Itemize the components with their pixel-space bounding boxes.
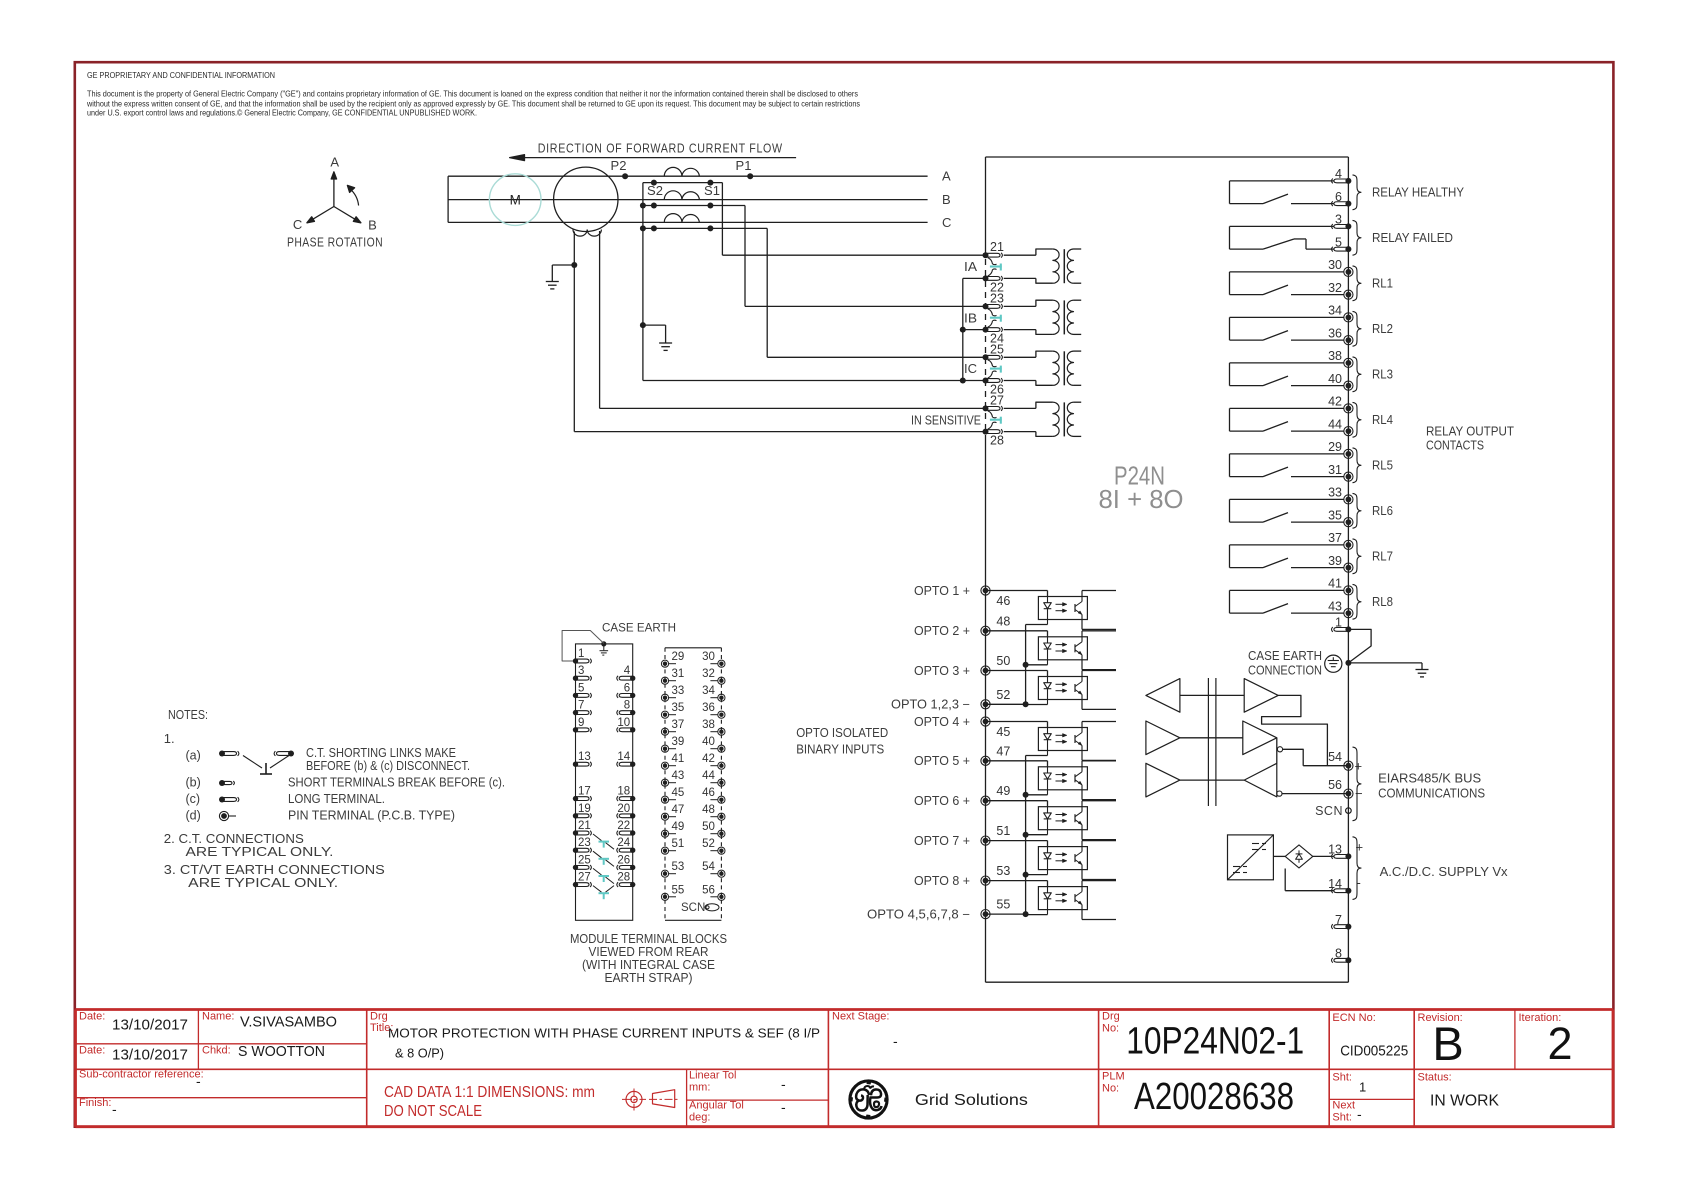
svg-text:49: 49 (672, 821, 685, 833)
svg-text:32: 32 (702, 668, 715, 680)
svg-text:53: 53 (672, 861, 685, 873)
svg-text:CONNECTION: CONNECTION (1248, 664, 1322, 678)
svg-text:-: - (893, 1033, 898, 1049)
svg-text:OPTO 5 +: OPTO 5 + (914, 754, 970, 768)
svg-text:RL7: RL7 (1372, 550, 1393, 564)
svg-text:44: 44 (702, 770, 715, 782)
svg-text:LONG TERMINAL.: LONG TERMINAL. (288, 792, 385, 806)
svg-text:This document is the property: This document is the property of General… (87, 89, 858, 99)
svg-text:41: 41 (672, 753, 685, 765)
svg-text:-: - (781, 1076, 786, 1092)
svg-text:39: 39 (672, 736, 685, 748)
svg-text:3. CT/VT EARTH CONNECTIONS: 3. CT/VT EARTH CONNECTIONS (164, 863, 385, 877)
svg-text:4: 4 (624, 665, 631, 677)
svg-text:26: 26 (617, 854, 630, 866)
svg-text:Date:: Date: (79, 1011, 105, 1023)
svg-text:Drg: Drg (370, 1011, 388, 1023)
svg-text:56: 56 (702, 884, 715, 896)
svg-text:BINARY INPUTS: BINARY INPUTS (796, 743, 884, 757)
svg-text:42: 42 (1328, 395, 1342, 409)
svg-text:24: 24 (617, 837, 630, 849)
svg-text:PIN TERMINAL (P.C.B. TYPE): PIN TERMINAL (P.C.B. TYPE) (288, 809, 455, 823)
svg-text:Chkd:: Chkd: (202, 1045, 231, 1057)
svg-text:44: 44 (1328, 417, 1342, 431)
svg-text:-: - (1357, 1106, 1362, 1122)
svg-text:GE PROPRIETARY AND CONFIDENTIA: GE PROPRIETARY AND CONFIDENTIAL INFORMAT… (87, 70, 275, 80)
svg-text:30: 30 (702, 651, 715, 663)
svg-text:RL2: RL2 (1372, 322, 1393, 336)
svg-text:OPTO 4,5,6,7,8 −: OPTO 4,5,6,7,8 − (867, 907, 970, 921)
svg-text:5: 5 (1335, 235, 1342, 249)
svg-text:6: 6 (624, 682, 630, 694)
svg-text:29: 29 (672, 651, 685, 663)
svg-text:IB: IB (964, 311, 977, 325)
svg-text:IN WORK: IN WORK (1430, 1093, 1499, 1110)
svg-text:41: 41 (1328, 577, 1342, 591)
svg-text:54: 54 (1328, 750, 1342, 764)
svg-text:45: 45 (996, 725, 1010, 739)
svg-text:-: - (196, 1073, 201, 1089)
svg-text:OPTO 8 +: OPTO 8 + (914, 874, 970, 888)
svg-text:46: 46 (702, 787, 715, 799)
svg-text:Next Stage:: Next Stage: (832, 1011, 889, 1023)
svg-text:38: 38 (702, 719, 715, 731)
svg-text:46: 46 (996, 594, 1010, 608)
svg-text:RL4: RL4 (1372, 413, 1393, 427)
svg-text:deg:: deg: (689, 1112, 710, 1124)
svg-text:29: 29 (1328, 440, 1342, 454)
svg-text:51: 51 (672, 838, 685, 850)
svg-text:43: 43 (672, 770, 685, 782)
svg-text:(a): (a) (186, 749, 201, 763)
svg-text:DIRECTION OF FORWARD CURREN: DIRECTION OF FORWARD CURRENT FLOW (538, 140, 783, 155)
svg-text:OPTO 2 +: OPTO 2 + (914, 624, 970, 638)
svg-text:5: 5 (578, 682, 584, 694)
svg-text:Sub-contractor reference:: Sub-contractor reference: (79, 1069, 204, 1081)
svg-text:8: 8 (1335, 947, 1342, 961)
svg-text:SCN: SCN (1315, 804, 1343, 818)
svg-text:17: 17 (578, 786, 591, 798)
svg-text:23: 23 (990, 291, 1004, 305)
svg-text:2: 2 (1547, 1018, 1572, 1069)
svg-text:OPTO 1 +: OPTO 1 + (914, 584, 970, 598)
svg-text:S WOOTTON: S WOOTTON (238, 1043, 325, 1060)
svg-text:2. C.T. CONNECTIONS: 2. C.T. CONNECTIONS (164, 832, 304, 846)
svg-text:SHORT TERMINALS BREAK BEFORE (: SHORT TERMINALS BREAK BEFORE (c). (288, 776, 505, 790)
svg-text:14: 14 (617, 751, 630, 763)
svg-text:1: 1 (1335, 616, 1342, 630)
svg-text:RELAY HEALTHY: RELAY HEALTHY (1372, 186, 1465, 200)
svg-text:37: 37 (672, 719, 685, 731)
svg-text:RL5: RL5 (1372, 459, 1393, 473)
svg-text:CASE EARTH: CASE EARTH (1248, 649, 1322, 663)
svg-text:& 8 O/P): & 8 O/P) (395, 1046, 444, 1061)
svg-text:27: 27 (990, 393, 1004, 407)
svg-text:28: 28 (617, 872, 630, 884)
svg-text:+: + (1355, 759, 1363, 774)
svg-text:56: 56 (1328, 778, 1342, 792)
svg-text:OPTO 4 +: OPTO 4 + (914, 715, 970, 729)
svg-text:7: 7 (578, 700, 584, 712)
svg-text:RL3: RL3 (1372, 368, 1393, 382)
svg-text:54: 54 (702, 861, 715, 873)
svg-text:IN SENSITIVE: IN SENSITIVE (911, 413, 981, 427)
svg-text:-: - (781, 1099, 786, 1115)
svg-text:−: − (1355, 786, 1363, 801)
svg-text:Sht:: Sht: (1332, 1112, 1352, 1124)
svg-text:23: 23 (578, 837, 591, 849)
svg-text:7: 7 (1335, 913, 1342, 927)
svg-text:PLM: PLM (1102, 1071, 1125, 1083)
svg-text:IA: IA (964, 260, 978, 274)
svg-text:22: 22 (617, 820, 630, 832)
svg-text:A: A (330, 155, 339, 170)
svg-text:40: 40 (1328, 372, 1342, 386)
svg-text:SCN: SCN (681, 902, 705, 914)
svg-text:1: 1 (578, 648, 584, 660)
svg-text:9: 9 (578, 717, 584, 729)
svg-text:31: 31 (672, 668, 685, 680)
svg-text:CID005225: CID005225 (1340, 1042, 1408, 1059)
svg-text:47: 47 (996, 744, 1010, 758)
svg-text:RL6: RL6 (1372, 504, 1393, 518)
svg-text:P2: P2 (611, 158, 627, 173)
svg-text:45: 45 (672, 787, 685, 799)
svg-text:18: 18 (617, 786, 630, 798)
svg-text:-: - (112, 1101, 117, 1117)
svg-text:(WITH INTEGRAL CASE: (WITH INTEGRAL CASE (582, 958, 715, 972)
svg-text:Grid Solutions: Grid Solutions (915, 1092, 1028, 1109)
svg-text:27: 27 (578, 872, 591, 884)
svg-text:49: 49 (996, 784, 1010, 798)
svg-text:Sht:: Sht: (1332, 1072, 1352, 1084)
svg-text:A.C./D.C. SUPPLY Vx: A.C./D.C. SUPPLY Vx (1380, 865, 1509, 879)
svg-text:Next: Next (1332, 1100, 1355, 1112)
svg-text:OPTO 1,2,3 −: OPTO 1,2,3 − (891, 698, 970, 712)
svg-text:M: M (510, 193, 521, 208)
svg-text:(d): (d) (186, 809, 201, 823)
svg-text:21: 21 (578, 820, 591, 832)
svg-text:37: 37 (1328, 531, 1342, 545)
svg-text:Finish:: Finish: (79, 1097, 111, 1109)
svg-text:RL8: RL8 (1372, 595, 1393, 609)
svg-text:33: 33 (1328, 486, 1342, 500)
svg-text:No:: No: (1102, 1083, 1119, 1095)
svg-text:36: 36 (1328, 326, 1342, 340)
svg-text:48: 48 (702, 804, 715, 816)
svg-text:35: 35 (1328, 508, 1342, 522)
svg-text:C.T. SHORTING LINKS MAKE: C.T. SHORTING LINKS MAKE (306, 746, 456, 760)
svg-text:B: B (368, 218, 377, 233)
svg-text:B: B (1432, 1017, 1463, 1070)
svg-text:IC: IC (964, 362, 977, 376)
svg-text:Status:: Status: (1418, 1072, 1452, 1084)
svg-text:No:: No: (1102, 1023, 1119, 1035)
svg-text:C: C (942, 215, 951, 230)
svg-text:4: 4 (1335, 167, 1342, 181)
svg-text:34: 34 (1328, 304, 1342, 318)
svg-text:32: 32 (1328, 281, 1342, 295)
svg-text:53: 53 (996, 864, 1010, 878)
svg-text:MOTOR PROTECTION WITH PHASE CU: MOTOR PROTECTION WITH PHASE CURRENT INPU… (388, 1026, 820, 1041)
svg-text:42: 42 (702, 753, 715, 765)
svg-text:25: 25 (578, 854, 591, 866)
svg-text:25: 25 (990, 342, 1004, 356)
svg-text:RELAY FAILED: RELAY FAILED (1372, 231, 1453, 245)
svg-text:1: 1 (1359, 1080, 1366, 1095)
svg-text:47: 47 (672, 804, 685, 816)
svg-text:43: 43 (1328, 599, 1342, 613)
svg-text:36: 36 (702, 702, 715, 714)
svg-text:OPTO ISOLATED: OPTO ISOLATED (796, 726, 888, 740)
svg-text:B: B (942, 192, 951, 207)
svg-text:52: 52 (702, 838, 715, 850)
svg-text:Drg: Drg (1102, 1011, 1120, 1023)
svg-text:under U.S. export control laws: under U.S. export control laws and regul… (87, 108, 477, 118)
svg-text:1.: 1. (164, 731, 175, 746)
svg-text:13: 13 (578, 751, 591, 763)
svg-text:3: 3 (1335, 213, 1342, 227)
svg-text:13/10/2017: 13/10/2017 (112, 1017, 188, 1034)
svg-text:50: 50 (702, 821, 715, 833)
svg-text:CASE EARTH: CASE EARTH (602, 623, 676, 635)
svg-text:39: 39 (1328, 554, 1342, 568)
svg-text:VIEWED FROM REAR: VIEWED FROM REAR (589, 945, 709, 959)
svg-text:OPTO 6 +: OPTO 6 + (914, 794, 970, 808)
svg-text:28: 28 (990, 434, 1004, 448)
svg-text:50: 50 (996, 654, 1010, 668)
svg-text:38: 38 (1328, 349, 1342, 363)
svg-text:14: 14 (1328, 877, 1342, 891)
svg-text:34: 34 (702, 685, 715, 697)
svg-text:Linear Tol: Linear Tol (689, 1070, 737, 1082)
svg-text:55: 55 (672, 884, 685, 896)
svg-text:10: 10 (617, 717, 630, 729)
svg-text:55: 55 (996, 898, 1010, 912)
svg-text:19: 19 (578, 803, 591, 815)
svg-text:51: 51 (996, 824, 1010, 838)
svg-text:31: 31 (1328, 463, 1342, 477)
svg-text:13: 13 (1328, 843, 1342, 857)
svg-text:PHASE ROTATION: PHASE ROTATION (287, 235, 383, 250)
svg-text:EARTH STRAP): EARTH STRAP) (605, 971, 693, 985)
svg-text:Date:: Date: (79, 1045, 105, 1057)
svg-text:8I + 8O: 8I + 8O (1099, 484, 1184, 514)
svg-text:A20028638: A20028638 (1134, 1076, 1294, 1118)
svg-text:BEFORE (b) & (c) DISCONNECT.: BEFORE (b) & (c) DISCONNECT. (306, 759, 470, 773)
svg-text:NOTES:: NOTES: (168, 707, 208, 722)
svg-text:S1: S1 (704, 183, 720, 198)
svg-text:ARE TYPICAL ONLY.: ARE TYPICAL ONLY. (188, 876, 338, 890)
svg-text:40: 40 (702, 736, 715, 748)
svg-text:3: 3 (578, 665, 584, 677)
svg-text:(b): (b) (186, 776, 201, 790)
svg-text:33: 33 (672, 685, 685, 697)
svg-text:ARE TYPICAL ONLY.: ARE TYPICAL ONLY. (186, 845, 334, 859)
svg-text:C: C (293, 217, 302, 232)
svg-text:(c): (c) (186, 792, 201, 806)
svg-text:Angular Tol: Angular Tol (689, 1100, 744, 1112)
svg-text:OPTO 7 +: OPTO 7 + (914, 834, 970, 848)
svg-text:48: 48 (996, 614, 1010, 628)
svg-text:DO NOT SCALE: DO NOT SCALE (384, 1103, 482, 1120)
svg-text:35: 35 (672, 702, 685, 714)
svg-text:S2: S2 (647, 183, 663, 198)
svg-text:13/10/2017: 13/10/2017 (112, 1047, 188, 1064)
svg-text:8: 8 (624, 700, 630, 712)
svg-text:RL1: RL1 (1372, 277, 1393, 291)
svg-text:mm:: mm: (689, 1082, 710, 1094)
svg-text:52: 52 (996, 688, 1010, 702)
svg-text:10P24N02-1: 10P24N02-1 (1126, 1021, 1304, 1063)
svg-text:EIARS485/K BUS: EIARS485/K BUS (1378, 771, 1481, 785)
svg-text:RELAY OUTPUT: RELAY OUTPUT (1426, 424, 1514, 438)
svg-text:21: 21 (990, 240, 1004, 254)
svg-text:COMMUNICATIONS: COMMUNICATIONS (1378, 787, 1485, 801)
svg-text:CONTACTS: CONTACTS (1426, 439, 1484, 453)
svg-text:OPTO 3 +: OPTO 3 + (914, 664, 970, 678)
svg-text:A: A (942, 169, 951, 184)
svg-text:P1: P1 (736, 158, 752, 173)
svg-text:Name:: Name: (202, 1011, 234, 1023)
svg-text:V.SIVASAMBO: V.SIVASAMBO (240, 1014, 337, 1031)
svg-text:ECN No:: ECN No: (1332, 1012, 1375, 1024)
svg-text:30: 30 (1328, 258, 1342, 272)
svg-text:6: 6 (1335, 190, 1342, 204)
svg-text:20: 20 (617, 803, 630, 815)
svg-text:CAD DATA 1:1 DIMENSIONS: mm: CAD DATA 1:1 DIMENSIONS: mm (384, 1084, 595, 1101)
svg-text:MODULE TERMINAL BLOCKS: MODULE TERMINAL BLOCKS (570, 932, 727, 946)
